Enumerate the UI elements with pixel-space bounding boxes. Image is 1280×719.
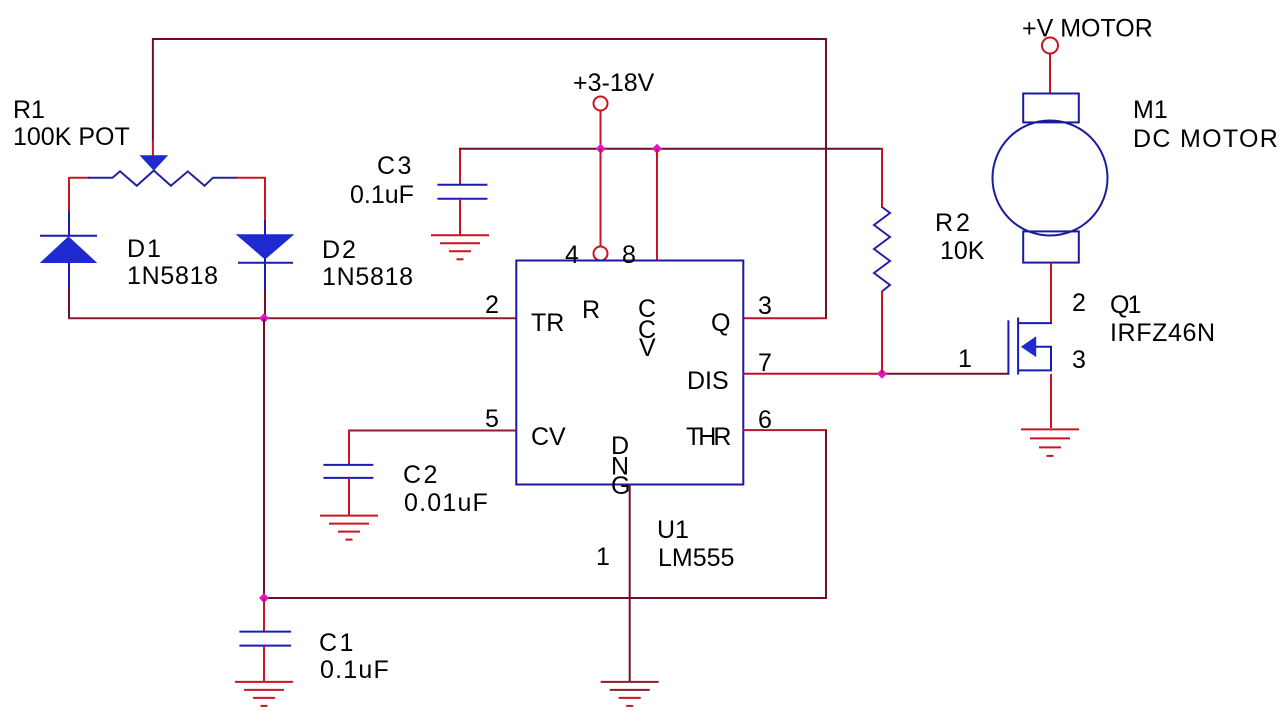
terminal: pin 4 open circle: [594, 247, 608, 261]
svg-text:3: 3: [758, 292, 772, 320]
wire: source down: [1050, 374, 1052, 428]
resistor R2 10K: [874, 148, 890, 374]
svg-text:Q1: Q1: [1110, 291, 1140, 319]
svg-text:0.1uF: 0.1uF: [320, 656, 390, 684]
svg-text:0.1uF: 0.1uF: [350, 181, 414, 209]
wire: pin 5 CV stub: [348, 430, 516, 432]
svg-text:DC MOTOR: DC MOTOR: [1133, 125, 1279, 153]
label R1: [13, 96, 130, 151]
pin label CV: [531, 423, 566, 451]
pin number 5: [485, 405, 499, 433]
transistor Q1 IRFZ46N: [1008, 318, 1052, 375]
svg-text:+V MOTOR: +V MOTOR: [1022, 15, 1153, 43]
pin number 2: [485, 291, 499, 319]
wire: TR net vertical down: [263, 318, 265, 599]
op IC U1 LM555 box: [516, 261, 743, 485]
node: DIS junction with R2: [877, 369, 887, 379]
potentiometer R1: [69, 155, 265, 186]
wire: pot left end down to D1: [68, 177, 70, 212]
svg-text:1: 1: [958, 345, 972, 373]
label +V MOTOR: [1022, 15, 1153, 43]
pin label GND (vertical): [611, 432, 630, 500]
svg-text:G: G: [611, 472, 630, 500]
wire: pin 1 GND vertical: [629, 485, 631, 682]
terminal: +V MOTOR: [1042, 38, 1058, 95]
pin label 8: [622, 241, 636, 269]
svg-text:+3-18V: +3-18V: [573, 69, 655, 97]
label C1: [319, 629, 390, 684]
ground (Q1): [1021, 429, 1079, 456]
pin label DIS: [687, 367, 729, 395]
ground (U1 pin 1): [601, 682, 659, 706]
label R2: [935, 209, 985, 265]
pin number 1 (gate): [958, 345, 972, 373]
wire: +V rail: [459, 148, 882, 150]
label +3-18V: [573, 69, 655, 97]
svg-text:10K: 10K: [940, 237, 985, 265]
diode D1 1N5818: [40, 211, 97, 289]
svg-text:C2: C2: [403, 461, 440, 489]
svg-text:1N5818: 1N5818: [322, 263, 414, 291]
svg-text:THR: THR: [686, 423, 730, 451]
svg-text:2: 2: [485, 291, 499, 319]
svg-text:V: V: [639, 334, 656, 362]
label Q1: [1110, 291, 1216, 347]
ground (C2): [320, 516, 378, 540]
svg-text:8: 8: [622, 241, 636, 269]
pin label TR: [531, 309, 564, 337]
svg-text:2: 2: [1072, 289, 1086, 317]
pin label Q: [711, 309, 730, 337]
wire: pin 7 DIS to gate: [743, 373, 1009, 375]
wire: rail down to pin 4 circle: [600, 149, 602, 247]
svg-text:Q: Q: [711, 309, 730, 337]
capacitor C1 0.1uF: [239, 598, 291, 681]
wire: D2 cathode down to TR junction: [264, 290, 266, 317]
pin number 1: [596, 543, 610, 571]
wire: rail down to pin 8: [656, 149, 658, 261]
wire: THR vertical down: [825, 430, 827, 599]
svg-text:D1: D1: [127, 235, 163, 263]
svg-text:4: 4: [565, 241, 579, 269]
svg-text:0.01uF: 0.01uF: [404, 489, 489, 517]
svg-text:R2: R2: [935, 209, 973, 237]
wire: D1 anode down to TR net: [68, 288, 70, 318]
pin number 3: [758, 292, 772, 320]
node: rail junction at pin4 drop: [596, 144, 606, 154]
pin label 4: [565, 241, 579, 269]
wire: pot wiper vertical: [152, 38, 154, 156]
wire: Q output top wire (pin3 to pot wiper): [152, 38, 827, 40]
pin number 2 (drain): [1072, 289, 1086, 317]
svg-text:3: 3: [1072, 346, 1086, 374]
pin number 3 (source): [1072, 346, 1086, 374]
svg-text:C3: C3: [377, 152, 414, 180]
svg-text:1: 1: [596, 543, 610, 571]
capacitor C3 0.1uF: [437, 149, 487, 235]
svg-text:CV: CV: [531, 423, 566, 451]
node: TR junction: [259, 313, 269, 323]
ground (C1): [235, 682, 293, 706]
svg-text:100K POT: 100K POT: [13, 123, 130, 151]
terminal: +3-18V: [594, 97, 608, 150]
wire: pin 6 THR stub: [743, 429, 827, 431]
pin label VCC (vertical): [638, 295, 656, 362]
wire: pot right end down to D2: [264, 177, 266, 221]
pin number 6: [758, 406, 772, 434]
label D2: [322, 236, 414, 291]
label U1 LM555: [657, 516, 734, 572]
pin number 7: [758, 349, 772, 377]
svg-text:R1: R1: [13, 96, 45, 124]
node: C1 junction: [259, 593, 269, 603]
wire: TR net horizontal (D1/D2 to pin 2): [68, 317, 516, 319]
wire: motor to drain: [1050, 263, 1052, 323]
svg-text:5: 5: [485, 405, 499, 433]
pin label R (reset): [582, 296, 600, 324]
svg-text:M1: M1: [1133, 96, 1168, 124]
label C3: [350, 152, 414, 209]
svg-text:1N5818: 1N5818: [127, 262, 219, 290]
node: rail junction at pin8 drop: [652, 144, 662, 154]
wire: pin 3 Q output stub: [743, 317, 827, 319]
ground (C3): [431, 235, 489, 259]
label C2: [403, 461, 489, 517]
wire: THR bottom horizontal to C1 node: [264, 597, 827, 599]
svg-text:DIS: DIS: [687, 367, 729, 395]
capacitor C2 0.01uF: [323, 430, 373, 515]
diode D2 1N5818: [237, 220, 293, 291]
motor M1: [993, 94, 1108, 263]
svg-text:D2: D2: [322, 236, 358, 264]
svg-text:U1: U1: [657, 516, 689, 544]
svg-text:IRFZ46N: IRFZ46N: [1110, 319, 1216, 347]
svg-text:LM555: LM555: [658, 544, 734, 572]
pin label THR: [686, 423, 730, 451]
label D1: [127, 235, 219, 290]
svg-text:C1: C1: [319, 629, 356, 657]
svg-text:TR: TR: [531, 309, 564, 337]
svg-text:R: R: [582, 296, 600, 324]
wire: Q output vertical drop at x=826: [825, 38, 827, 319]
label M1: [1133, 96, 1279, 153]
